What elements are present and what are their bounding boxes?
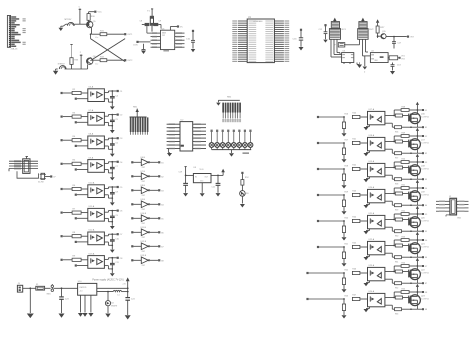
svg-text:7407: 7407 [142, 265, 146, 267]
microphone MK2 [58, 63, 67, 69]
svg-text:C6: C6 [115, 143, 117, 145]
svg-text:MTR3V: MTR3V [58, 63, 65, 65]
ground (U3) [357, 63, 362, 69]
svg-text:O5: O5 [120, 187, 123, 189]
driver row 7 (opto U23, MOSFET Q22) [306, 258, 429, 293]
svg-text:7407: 7407 [142, 167, 146, 169]
svg-text:U24.A: U24.A [369, 290, 375, 293]
svg-text:GND: GND [457, 218, 462, 220]
svg-text:R57: R57 [395, 157, 398, 159]
ground (C16) [299, 47, 304, 51]
svg-text:32.768: 32.768 [38, 182, 44, 184]
cross wire B [91, 34, 126, 60]
svg-text:C21: C21 [212, 187, 215, 189]
capacitor C23 [59, 287, 70, 317]
buffer gate U8.B [131, 185, 163, 197]
svg-text:CON: CON [133, 45, 138, 47]
svg-text:OUT1: OUT1 [127, 34, 132, 36]
svg-text:G2: G2 [161, 176, 164, 178]
svg-text:S5: S5 [425, 231, 427, 233]
driver row 6 (opto U22, MOSFET Q21) [317, 232, 429, 267]
svg-text:D2: D2 [425, 136, 427, 138]
svg-text:-5.0: -5.0 [80, 291, 83, 293]
wire (C19 to U9) [185, 175, 194, 177]
capacitor C21 [211, 175, 223, 197]
svg-text:U21.A: U21.A [369, 212, 375, 215]
ground (U9 tab) [200, 183, 205, 197]
resistor R26 [388, 56, 405, 61]
svg-text:U19.A: U19.A [369, 160, 375, 163]
svg-text:G4: G4 [161, 204, 164, 206]
resistor R33 [70, 58, 79, 69]
svg-text:O2: O2 [120, 115, 123, 117]
wire (bottom bus) [65, 64, 88, 69]
transistor Q6 [87, 56, 97, 64]
driver row 2 (opto U18, MOSFET Q17) [317, 128, 429, 163]
wires (RV2 to U4) [344, 39, 370, 56]
svg-text:7407: 7407 [142, 181, 146, 183]
svg-text:U7.A: U7.A [89, 109, 94, 112]
svg-text:Sub IRF540: Sub IRF540 [421, 169, 429, 171]
svg-text:G1: G1 [161, 162, 164, 164]
capacitor C20 [183, 183, 188, 196]
sensor RV2 [358, 18, 375, 40]
svg-text:O7: O7 [120, 234, 123, 236]
microcontroller U1 box [247, 17, 274, 63]
svg-text:R60: R60 [395, 235, 398, 237]
svg-text:Sub IRF540: Sub IRF540 [421, 247, 429, 249]
svg-text:S1: S1 [425, 127, 427, 129]
IC U4 [370, 50, 388, 62]
optocoupler stage row 4 (R, opto U9, cap, gnd) [61, 156, 123, 180]
svg-text:D5: D5 [425, 214, 427, 216]
svg-text:U8.B: U8.B [141, 185, 146, 187]
svg-text:R56: R56 [395, 131, 398, 133]
node RXD [133, 41, 151, 47]
svg-text:U18.A: U18.A [369, 134, 375, 137]
svg-text:Sub IRF540: Sub IRF540 [421, 195, 429, 197]
driver row 4 (opto U20, MOSFET Q19) [317, 180, 429, 215]
svg-text:Sub IRF540: Sub IRF540 [421, 273, 429, 275]
svg-text:U23.A: U23.A [369, 264, 375, 267]
svg-text:O4: O4 [120, 162, 123, 164]
svg-text:G6: G6 [161, 232, 164, 234]
svg-text:U13.B: U13.B [141, 255, 147, 257]
ground (J3) [27, 287, 34, 318]
ground (U10 pins) [78, 295, 94, 317]
svg-text:U9.A: U9.A [89, 156, 94, 159]
svg-text:SW1: SW1 [47, 293, 51, 295]
svg-text:G8: G8 [161, 260, 164, 262]
svg-text:C8: C8 [115, 191, 117, 193]
svg-text:D3: D3 [425, 162, 427, 164]
transistor Q15 [377, 31, 386, 39]
svg-text:R61: R61 [395, 261, 398, 263]
wire (U10 vout top) [97, 287, 128, 289]
svg-text:C11: C11 [115, 262, 118, 264]
optocoupler stage row 6 (R, opto U11, cap, gnd) [61, 205, 123, 229]
crystal X2 [40, 173, 50, 179]
svg-text:U10.B: U10.B [141, 213, 147, 215]
svg-text:O1: O1 [120, 91, 123, 93]
svg-text:Q15: Q15 [382, 31, 386, 33]
ground (MK1) [59, 26, 64, 31]
text (power supply title) [92, 279, 124, 282]
transistor Q5 [87, 20, 97, 28]
svg-text:7407: 7407 [142, 223, 146, 225]
svg-text:7407: 7407 [142, 195, 146, 197]
resistor R52 [241, 172, 250, 191]
svg-text:BRIGHT: BRIGHT [111, 305, 117, 307]
LED D9 [240, 191, 250, 197]
buffer gate U13.B [131, 255, 163, 267]
U1 right pins [265, 21, 289, 62]
svg-text:U12.A: U12.A [89, 229, 95, 232]
svg-text:Power supply (AC/DC 7V-12V): Power supply (AC/DC 7V-12V) [92, 279, 124, 282]
svg-text:U12.B: U12.B [141, 241, 147, 243]
power node 2 [80, 52, 83, 69]
resistor R27 [376, 19, 385, 35]
buffer gate U9.B [131, 199, 163, 211]
svg-text:U20.A: U20.A [369, 186, 375, 189]
svg-text:78L05: 78L05 [199, 169, 204, 171]
filter block FB1 [9, 157, 38, 174]
svg-text:D8: D8 [425, 292, 427, 294]
U5 left pins [151, 32, 161, 48]
optocoupler stage row 2 (R, opto U7, cap, gnd) [61, 109, 123, 133]
sensor RV1 [329, 18, 346, 40]
capacitor C9 [154, 21, 162, 29]
svg-text:C7: C7 [115, 166, 117, 168]
svg-text:O3: O3 [120, 138, 123, 140]
regulator U10 [78, 281, 97, 295]
driver row 5 (opto U21, MOSFET Q20) [317, 206, 429, 241]
resistor network RN2 [216, 96, 241, 122]
crystal Y1 [147, 9, 154, 32]
svg-text:G5: G5 [161, 218, 164, 220]
svg-text:U17.A: U17.A [369, 108, 375, 111]
svg-text:VO1: VO1 [401, 56, 405, 58]
svg-text:R59: R59 [395, 209, 398, 211]
svg-text:U9.B: U9.B [141, 199, 146, 201]
svg-text:J1B-16: J1B-16 [10, 48, 18, 50]
svg-text:Sub IRF540: Sub IRF540 [421, 221, 429, 223]
capacitor C12 [319, 24, 328, 42]
inductor L1 [113, 290, 128, 296]
optocoupler stage row 8 (R, opto U13, cap, gnd) [61, 252, 123, 276]
svg-text:U7.B: U7.B [141, 171, 146, 173]
svg-text:REF: REF [375, 60, 378, 62]
svg-text:S2: S2 [425, 153, 427, 155]
svg-text:U8.A: U8.A [89, 133, 94, 136]
svg-text:S6: S6 [425, 257, 427, 259]
wire (Q5 emitter) [92, 28, 101, 34]
capacitor C24 [125, 287, 135, 300]
buffer gate U10.B [131, 213, 163, 225]
label (under U5) [163, 50, 169, 51]
svg-text:LM2576: LM2576 [80, 287, 87, 289]
svg-text:L1: L1 [118, 294, 120, 296]
power flag +5V (PSU) [122, 277, 130, 319]
buffer gate U7.B [131, 171, 163, 183]
connector J3 [17, 283, 35, 292]
LED D11 [105, 291, 117, 318]
optocoupler stage row 1 (R, opto U6, cap, gnd) [61, 86, 123, 110]
wire (U5 top right) [170, 25, 183, 30]
svg-text:S4: S4 [425, 205, 427, 207]
IC U3 [342, 51, 354, 65]
resistor network RN1 [130, 107, 149, 135]
svg-text:S3: S3 [425, 179, 427, 181]
power node +5 [79, 7, 82, 25]
connector J1 (16-pin header) [7, 16, 25, 51]
svg-text:R62: R62 [395, 287, 398, 289]
svg-text:232: 232 [162, 35, 165, 37]
svg-text:MTR3V: MTR3V [65, 19, 72, 21]
driver row 8 (opto U24, MOSFET Q23) [306, 284, 429, 319]
buffer gate U11.B [131, 227, 163, 239]
svg-text:D6: D6 [425, 240, 427, 242]
wire loop (FB1 below) [9, 169, 39, 179]
wire (Q15 out) [378, 35, 415, 39]
optocoupler stage row 5 (R, opto U10, cap, gnd) [61, 182, 123, 206]
node (FB1 out) [38, 175, 57, 183]
capacitor C18 [390, 63, 401, 75]
svg-text:U6.A: U6.A [89, 86, 94, 89]
IC U5 [161, 28, 175, 49]
svg-text:OUT2: OUT2 [127, 60, 132, 62]
driver row 3 (opto U19, MOSFET Q18) [317, 154, 429, 189]
ground (MK2) [53, 69, 58, 75]
optocoupler stage row 3 (R, opto U8, cap, gnd) [61, 133, 123, 157]
svg-text:S8: S8 [425, 309, 427, 311]
svg-text:Sub IRF540: Sub IRF540 [421, 143, 429, 145]
svg-text:S7: S7 [425, 283, 427, 285]
switch SW1 [47, 284, 78, 295]
svg-text:D4: D4 [111, 303, 113, 305]
wire (U3-U4 node 2) [363, 56, 368, 74]
svg-text:O8: O8 [120, 258, 123, 260]
ground (U5) [141, 44, 146, 54]
buffer gate U6.B [131, 157, 163, 169]
driver IC U2 [167, 120, 206, 151]
svg-text:VCC: VCC [98, 12, 103, 14]
svg-text:7407: 7407 [142, 251, 146, 253]
svg-text:C5: C5 [115, 119, 117, 121]
capacitor C8 [140, 21, 151, 34]
ground (LED) [240, 196, 245, 207]
wires (RV1 to U3) [331, 39, 342, 57]
resistor R30 [87, 11, 102, 26]
svg-text:G3: G3 [161, 190, 164, 192]
capacitor C17 [392, 36, 402, 49]
svg-text:U13.A: U13.A [89, 252, 95, 255]
svg-text:G7: G7 [161, 246, 164, 248]
connector J2 [436, 196, 469, 220]
svg-text:R63: R63 [395, 313, 398, 315]
capacitor C16 [293, 29, 304, 47]
svg-text:OUT: OUT [205, 176, 208, 178]
microphone MK1 [63, 19, 87, 26]
svg-text:Sub IRF540: Sub IRF540 [421, 299, 429, 301]
svg-text:U11.A: U11.A [89, 205, 95, 208]
resistor R34 [91, 55, 132, 65]
optocoupler stage row 7 (R, opto U12, cap, gnd) [61, 229, 123, 253]
svg-text:D7: D7 [425, 266, 427, 268]
buffer gate U12.B [131, 241, 163, 253]
svg-text:C10: C10 [115, 239, 118, 241]
wire (stage link) [70, 33, 91, 57]
resistor R31 [95, 31, 132, 40]
svg-text:R58: R58 [395, 183, 398, 185]
svg-text:C9: C9 [115, 215, 117, 217]
fuse F1 [36, 284, 51, 290]
power flag (U9 out) [221, 169, 225, 176]
svg-text:7407: 7407 [142, 209, 146, 211]
regulator U9 [193, 167, 211, 183]
U1 left pins [232, 21, 256, 62]
wire (U10 vout 2) [97, 291, 113, 293]
svg-text:7407: 7407 [142, 237, 146, 239]
ground (U2) [167, 149, 172, 157]
svg-text:D1: D1 [425, 110, 427, 112]
svg-text:U22.A: U22.A [369, 238, 375, 241]
svg-text:VO2: VO2 [401, 59, 405, 61]
U5 right pins [175, 32, 185, 48]
jumper JP2 [334, 43, 345, 47]
driver row 1 (opto U17, MOSFET Q16) [317, 102, 429, 137]
capacitor C10 [186, 30, 195, 52]
svg-text:U6.B: U6.B [141, 157, 146, 159]
varistor row MOV1-8 [209, 130, 253, 157]
svg-text:U11.B: U11.B [141, 227, 147, 229]
cross wire A [91, 39, 126, 62]
svg-text:O6: O6 [120, 211, 123, 213]
svg-text:Sub IRF540: Sub IRF540 [421, 117, 429, 119]
svg-text:U10.A: U10.A [89, 182, 95, 185]
capacitor C19 [179, 167, 187, 184]
svg-text:C4: C4 [115, 95, 117, 97]
svg-text:D4: D4 [425, 188, 427, 190]
